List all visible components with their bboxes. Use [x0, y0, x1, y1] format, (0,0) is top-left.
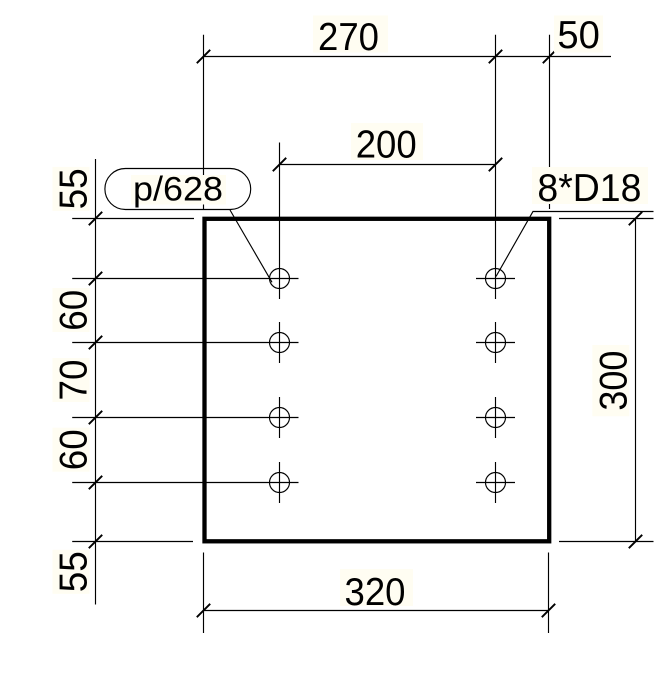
svg-text:50: 50 [557, 14, 600, 57]
svg-text:55: 55 [53, 551, 96, 592]
svg-text:60: 60 [53, 290, 96, 331]
svg-text:320: 320 [345, 571, 406, 614]
svg-text:200: 200 [356, 123, 417, 166]
svg-text:270: 270 [318, 16, 379, 59]
svg-text:300: 300 [592, 351, 635, 411]
svg-text:p/628: p/628 [133, 170, 223, 208]
svg-text:55: 55 [53, 168, 96, 209]
svg-text:60: 60 [53, 429, 96, 470]
svg-text:70: 70 [53, 360, 96, 401]
svg-text:8*D18: 8*D18 [537, 167, 641, 210]
